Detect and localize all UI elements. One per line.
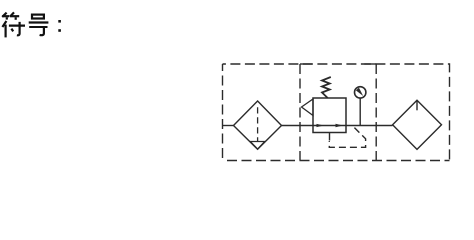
pilot dashed feedback line <box>329 126 365 148</box>
regulator adjustment spring <box>322 77 331 98</box>
符 cun vertical hook <box>17 22 20 35</box>
lubricator drip tick <box>416 101 418 110</box>
pressure gauge needle <box>356 88 363 96</box>
pressure gauge stem <box>359 98 361 125</box>
filter F diamond body <box>234 101 282 149</box>
colon dots <box>58 20 61 32</box>
dashed divider between filter and regulator compartments <box>299 64 301 161</box>
符 bamboo left: horizontal <box>2 15 9 17</box>
flow arrowhead 1 inside regulator <box>317 124 325 127</box>
filter drain triangle <box>250 142 264 150</box>
符 cun horizontal <box>9 25 25 27</box>
outer enclosure bottom edge <box>223 160 450 162</box>
flow arrowhead 2 inside regulator <box>336 124 344 127</box>
regulator R body box <box>313 98 346 133</box>
inner box top-right corner stub <box>364 63 376 65</box>
号 mouth box <box>32 15 44 19</box>
符 bamboo right: slant <box>10 12 14 16</box>
号 bar 1 <box>29 21 49 23</box>
label text 符号: (drawn as strokes) <box>2 12 48 37</box>
符 person radical slant <box>2 21 6 27</box>
符 bamboo left: tick <box>6 17 8 19</box>
outer dashed enclosure box <box>223 64 450 161</box>
符 bamboo radical left: slant <box>2 13 6 17</box>
符 bamboo right: tick <box>15 17 17 20</box>
lubricator L diamond body <box>393 100 442 149</box>
pressure gauge dial <box>355 87 366 98</box>
符 bamboo right: horizontal <box>10 15 19 17</box>
dashed divider between regulator and lubricator compartments <box>375 64 377 161</box>
wire: main flow line filter to lubricator (through regulator box) <box>282 125 393 127</box>
号 hook stroke <box>40 28 44 35</box>
inner box top-left corner stub <box>300 63 312 65</box>
wire: inlet stub to filter <box>223 125 234 127</box>
符 person radical vertical <box>4 25 6 38</box>
符 cun dot <box>11 29 13 32</box>
号 bar 2 <box>29 26 47 28</box>
outer enclosure left edge <box>222 64 224 161</box>
regulator relief triangle (left vent) <box>302 99 314 116</box>
filter element dashed centerline <box>257 107 259 141</box>
pilot stub under regulator <box>329 133 331 141</box>
